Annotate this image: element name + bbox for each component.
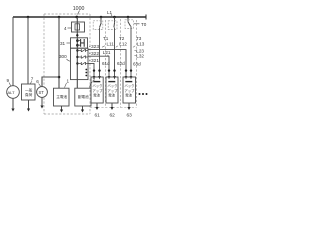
wire starter branch (58, 17, 60, 88)
battery pack 2 (106, 77, 118, 103)
svg-text:L21: L21 (103, 50, 111, 55)
label L11 (102, 41, 114, 47)
ground of general load (27, 100, 30, 112)
svg-text:副電池: 副電池 (78, 94, 89, 99)
node junction dot starter branch (58, 76, 61, 79)
svg-text:主電池: 主電池 (56, 94, 67, 99)
svg-text:61d: 61d (102, 61, 110, 66)
wire general load feed (27, 17, 29, 84)
svg-text:一般: 一般 (25, 88, 33, 93)
svg-text:ST: ST (39, 90, 45, 95)
alternator ALT (7, 86, 20, 99)
wire line 322 (88, 56, 109, 76)
battery pack 3 (123, 77, 136, 103)
connector dots and arrows into pack 3 (125, 69, 133, 82)
svg-text:バック: バック (107, 83, 117, 88)
svg-text:1: 1 (67, 79, 70, 84)
wire line 323 (88, 50, 126, 76)
svg-text:L32: L32 (136, 53, 144, 58)
battery box B (75, 88, 91, 106)
svg-text:アップ: アップ (124, 88, 135, 93)
svg-text:4: 4 (64, 26, 67, 31)
label L21 (103, 50, 111, 56)
dashed partition lines of pack section (90, 14, 137, 114)
label 31 with dash (60, 41, 70, 46)
ground of alternator (11, 98, 14, 111)
svg-text:T1: T1 (103, 36, 109, 41)
label 9 with leader (7, 78, 12, 86)
svg-text:31: 31 (60, 41, 66, 46)
label 1000 with leader (73, 6, 85, 15)
svg-text:62: 62 (110, 113, 116, 119)
general load box (22, 84, 36, 100)
label 321 (89, 58, 99, 64)
svg-text:ALT: ALT (8, 90, 16, 95)
svg-text:9: 9 (7, 78, 10, 83)
ground of pack 2 with label 62 (110, 103, 116, 119)
svg-text:62d: 62d (117, 61, 125, 66)
label L12 (116, 41, 128, 47)
switch T3 column (125, 17, 142, 76)
svg-text:322: 322 (91, 51, 99, 57)
battery box A (54, 88, 70, 106)
wire line 321 (88, 63, 94, 76)
svg-text:1000: 1000 (73, 6, 85, 12)
fuse box 4 (72, 22, 85, 32)
svg-text:6: 6 (36, 79, 39, 84)
label 2 with leader (90, 77, 96, 88)
distribution box 300 (71, 48, 89, 79)
svg-text:L12: L12 (119, 41, 127, 46)
switch row 323 inside box 300 (76, 49, 88, 52)
wire main bus (13, 16, 146, 18)
dashed box 1000 top and left edges (44, 14, 90, 114)
switch row 322 inside box 300 (76, 56, 88, 59)
svg-text:61: 61 (95, 113, 101, 119)
connector dots and arrows into pack 1 (93, 69, 101, 82)
label L1 with leader (107, 10, 113, 16)
svg-text:300: 300 (59, 54, 67, 59)
relay box 31 (71, 38, 88, 48)
svg-text:L13: L13 (137, 41, 145, 46)
ground of battery box B (81, 106, 84, 113)
svg-text:63d: 63d (133, 62, 141, 67)
starter ST (37, 87, 48, 98)
wire to starter (42, 77, 59, 87)
svg-text:アップ: アップ (107, 88, 118, 93)
wire alternator feed (12, 17, 14, 86)
ground of pack 1 with label 61 (95, 103, 101, 119)
svg-text:電池: 電池 (108, 92, 115, 97)
switch T1 column (93, 17, 109, 76)
svg-text:7: 7 (31, 77, 34, 82)
ground of pack 3 with label 63 (127, 103, 133, 119)
label L13 (133, 41, 145, 47)
svg-text:321: 321 (91, 58, 99, 64)
connector dots and arrows into pack 2 (108, 69, 116, 82)
battery pack 1 (91, 77, 103, 103)
label L23 (135, 48, 145, 53)
switch row 321 inside box 300 (76, 62, 88, 65)
label 4 with dash (64, 26, 71, 31)
terminal end tick of bus (145, 15, 147, 20)
label 322 (89, 51, 99, 57)
svg-text:T0: T0 (141, 22, 147, 27)
svg-text:323: 323 (91, 44, 99, 50)
svg-text:電池: 電池 (93, 92, 100, 97)
svg-text:L1: L1 (107, 10, 113, 15)
label L32 (135, 53, 145, 58)
svg-text:バック: バック (92, 83, 102, 88)
node bus junction dots (27, 16, 130, 19)
ground of starter (40, 97, 43, 108)
label T0 (134, 22, 147, 27)
ground of battery box A (60, 106, 63, 113)
label 7 with leader (30, 77, 34, 84)
label 323 (89, 44, 99, 50)
ellipsis inside box 300 (85, 69, 87, 77)
switch T2 column (108, 17, 125, 76)
svg-text:バック: バック (124, 83, 134, 88)
svg-text:電池: 電池 (125, 92, 132, 97)
ellipsis more packs (139, 93, 148, 95)
node dot between fuse and relay (76, 34, 78, 36)
svg-text:L11: L11 (107, 41, 115, 46)
label 1 with leader (65, 79, 70, 88)
wire center feed (76, 17, 78, 88)
svg-text:アップ: アップ (92, 88, 103, 93)
label 300 with leader (59, 54, 70, 61)
svg-text:T2: T2 (119, 36, 125, 41)
svg-text:63: 63 (127, 113, 133, 119)
svg-text:T3: T3 (136, 36, 142, 41)
svg-text:負荷: 負荷 (25, 92, 33, 97)
